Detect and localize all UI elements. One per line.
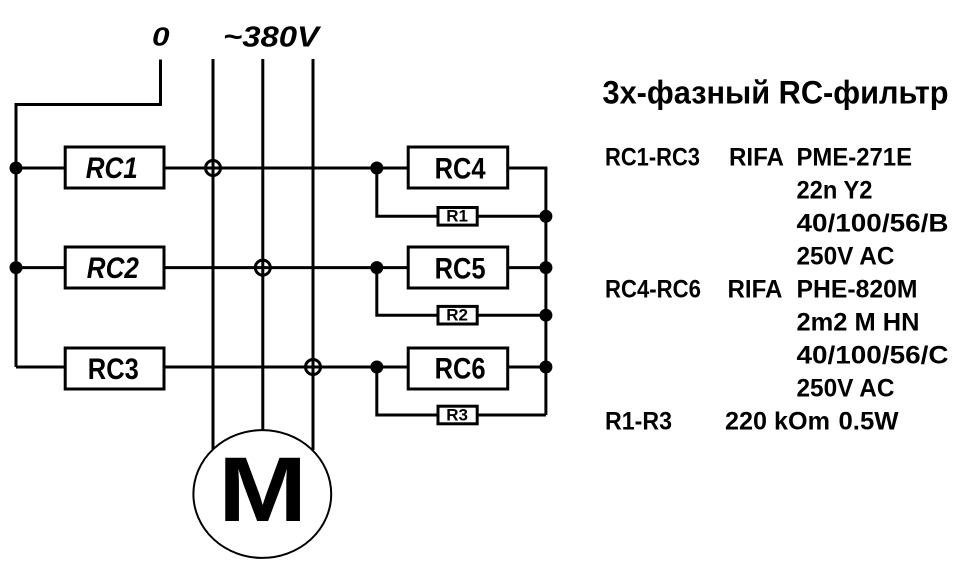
svg-text:RC6: RC6: [435, 353, 486, 386]
svg-text:~380V: ~380V: [223, 22, 322, 54]
svg-text:M: M: [218, 439, 307, 541]
resistor R1: [438, 207, 477, 226]
svg-text:250V AC: 250V AC: [797, 243, 895, 270]
svg-text:3х-фазный RC-фильтр: 3х-фазный RC-фильтр: [603, 75, 949, 111]
wire: phase line L1: [212, 59, 215, 450]
svg-text:2m2 M HN: 2m2 M HN: [797, 309, 920, 336]
svg-text:RC1: RC1: [86, 152, 138, 185]
terminal: phase L3 tap: [306, 360, 321, 375]
wire: row 3 horizontal: [16, 366, 547, 369]
terminal: phase L2 tap: [255, 260, 270, 275]
svg-text:R1-R3: R1-R3: [605, 408, 672, 435]
svg-text:40/100/56/C: 40/100/56/C: [797, 342, 949, 369]
wire: right bus: [544, 168, 547, 415]
svg-text:PHE-820M: PHE-820M: [797, 276, 918, 303]
terminal: phase L1 tap: [206, 161, 221, 176]
junction: left bus row 1: [10, 162, 23, 175]
svg-text:RIFA: RIFA: [729, 144, 784, 171]
spec row 5: [605, 276, 918, 303]
wire: phase line L3: [312, 59, 315, 450]
junction: right bus R2: [539, 309, 552, 322]
svg-text:250V AC: 250V AC: [797, 375, 895, 402]
junction: right bus RC5: [539, 261, 552, 274]
svg-text:R3: R3: [446, 405, 468, 424]
svg-text:RIFA: RIFA: [728, 276, 783, 303]
wire: phase line L2: [261, 59, 264, 450]
spec row 9: [605, 408, 899, 435]
svg-text:RC4: RC4: [435, 153, 487, 186]
junction: row 1 split: [370, 162, 383, 175]
svg-text:RC2: RC2: [87, 252, 140, 285]
svg-text:PME-271E: PME-271E: [797, 144, 913, 171]
svg-text:40/100/56/B: 40/100/56/B: [797, 210, 949, 237]
spec row 1: [605, 144, 912, 171]
capacitor RC1: [65, 147, 164, 188]
junction: right bus R1: [539, 210, 552, 223]
wire: R2 branch: [377, 268, 546, 316]
wire: R3 branch: [377, 367, 546, 415]
svg-text:0: 0: [152, 21, 170, 51]
capacitor RC3: [65, 348, 164, 389]
junction: right bus RC6: [539, 361, 552, 374]
capacitor RC4: [408, 147, 508, 188]
capacitor RC5: [408, 247, 508, 288]
svg-text:RC3: RC3: [88, 353, 139, 386]
wire: R1 branch: [377, 168, 546, 216]
wire: row 1 horizontal: [16, 167, 547, 170]
junction: row 3 split: [370, 361, 383, 374]
junction: left bus row 2: [10, 261, 23, 274]
svg-text:220 kOm: 220 kOm: [725, 408, 830, 435]
capacitor RC2: [65, 247, 164, 288]
svg-text:RC1-RC3: RC1-RC3: [605, 144, 700, 171]
motor M: [193, 430, 331, 558]
svg-text:R1: R1: [446, 207, 468, 226]
svg-text:RC4-RC6: RC4-RC6: [605, 276, 701, 303]
wire: row 2 horizontal: [16, 266, 547, 269]
wire: neutral riser and left bus: [16, 60, 161, 368]
resistor R3: [438, 405, 477, 424]
junction: row 2 split: [370, 261, 383, 274]
svg-text:RC5: RC5: [435, 253, 486, 286]
resistor R2: [438, 306, 477, 325]
capacitor RC6: [408, 348, 508, 389]
svg-text:22n Y2: 22n Y2: [797, 177, 873, 204]
svg-text:R2: R2: [446, 306, 468, 325]
svg-text:0.5W: 0.5W: [839, 408, 900, 435]
